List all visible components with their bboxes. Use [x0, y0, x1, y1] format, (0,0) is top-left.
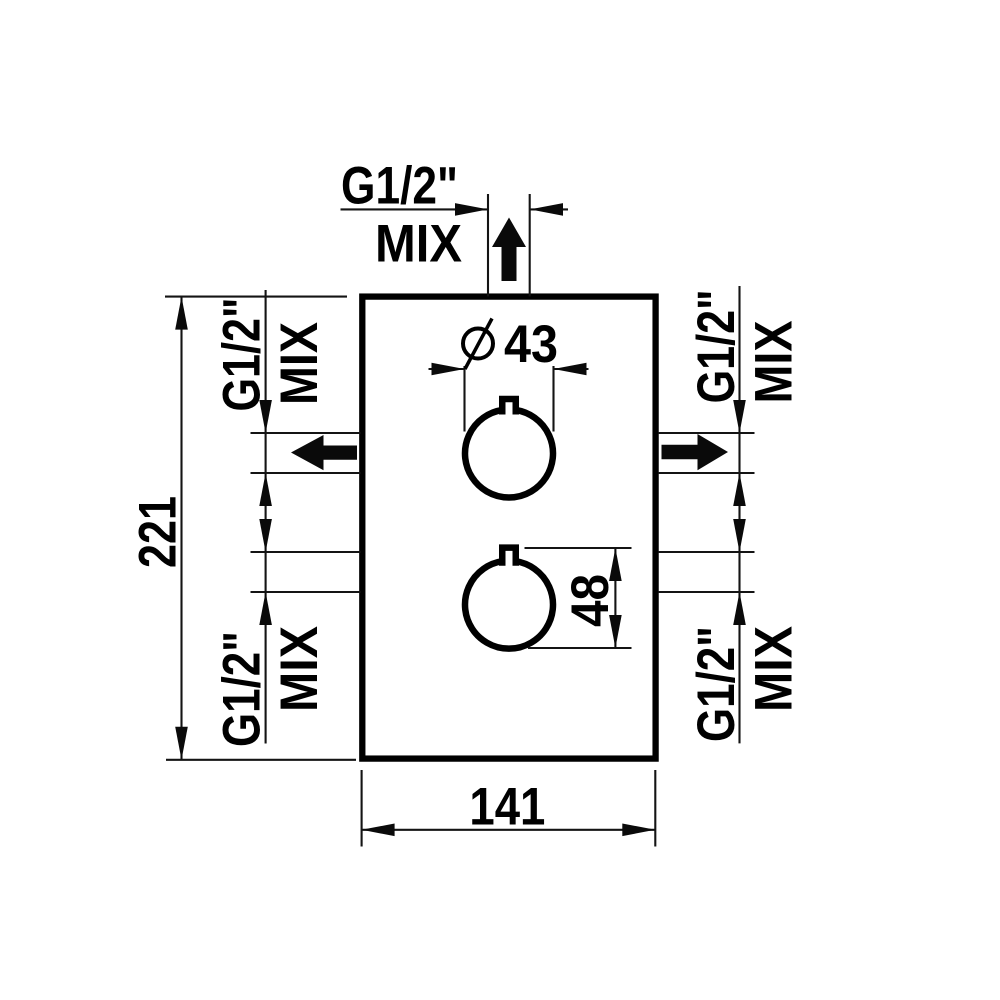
svg-text:221: 221	[129, 496, 188, 568]
svg-text:G1/2": G1/2"	[213, 631, 272, 747]
221 bottom arrowhead	[175, 727, 188, 760]
svg-text:G1/2": G1/2"	[687, 289, 746, 403]
141 dimension line	[362, 829, 656, 831]
upper knob circle (gap at top)	[465, 410, 553, 497]
left arrowhead down at 433	[259, 400, 272, 433]
svg-text:G1/2": G1/2"	[213, 298, 272, 412]
top inlet port extension line right	[529, 194, 531, 296]
svg-text:MIX: MIX	[270, 322, 329, 405]
right chained dimension line	[738, 286, 740, 743]
right arrowhead up at 473	[733, 473, 746, 506]
bottom extension line for 221 dimension	[166, 759, 356, 761]
upper knob index notch tab	[502, 399, 516, 415]
svg-text:G1/2": G1/2"	[341, 156, 458, 215]
diameter symbol slash	[465, 319, 492, 370]
svg-text:G1/2": G1/2"	[687, 626, 746, 742]
diameter symbol circle	[463, 329, 493, 359]
48 dimension bottom reference line	[528, 647, 632, 649]
48 arrowhead down	[609, 615, 622, 648]
left arrowhead up at 592	[259, 592, 272, 625]
right port stub line y433	[658, 432, 755, 434]
top G1/2 dimension leader line	[341, 208, 489, 210]
diameter 43 extension line left	[463, 366, 465, 432]
diameter 43 dimension line left segment	[429, 368, 465, 370]
diameter 43 right arrowhead pointing left	[554, 363, 587, 376]
top extension line for 221 dimension	[165, 296, 347, 298]
48 dimension top reference line	[525, 547, 632, 549]
top G1/2 right-pointing arrowhead	[455, 203, 488, 216]
48 dimension line	[614, 548, 616, 648]
left arrowhead down at 552	[259, 519, 272, 552]
diameter 43 dimension line right segment	[554, 368, 589, 370]
221 dimension line	[180, 297, 182, 760]
diameter 43 extension line right	[552, 366, 554, 432]
left port stub line y433	[251, 432, 361, 434]
svg-text:MIX: MIX	[745, 321, 804, 404]
141 extension line right	[654, 770, 656, 847]
svg-text:43: 43	[504, 315, 558, 374]
141 right arrowhead	[622, 824, 655, 837]
top mix flow arrow (thick)	[492, 218, 526, 282]
lower knob circle (gap at top)	[465, 561, 553, 648]
svg-text:MIX: MIX	[375, 215, 462, 274]
141 left arrowhead	[362, 824, 395, 837]
left chained dimension line	[265, 290, 267, 744]
right arrowhead down at 552	[733, 519, 746, 552]
right port stub line y552	[658, 551, 755, 553]
left arrowhead up at 473	[259, 473, 272, 506]
top G1/2 left-pointing arrowhead	[530, 203, 563, 216]
svg-text:141: 141	[469, 777, 545, 836]
left outlet flow arrow (thick)	[291, 435, 357, 470]
141 extension line left	[361, 770, 363, 847]
left port stub line y592	[251, 591, 361, 593]
top G1/2 tail line	[530, 208, 568, 210]
svg-text:MIX: MIX	[745, 626, 804, 712]
48 arrowhead up	[609, 548, 622, 581]
right port stub line y592	[658, 591, 755, 593]
right port stub line y473	[658, 472, 755, 474]
221 top arrowhead	[175, 297, 188, 330]
right outlet flow arrow (thick)	[662, 434, 729, 470]
diameter 43 left arrowhead pointing right	[432, 363, 465, 376]
right arrowhead up at 592	[733, 592, 746, 625]
right arrowhead down at 433	[733, 400, 746, 433]
left port stub line y473	[251, 472, 361, 474]
svg-text:48: 48	[561, 574, 620, 627]
top inlet port extension line left	[487, 194, 489, 296]
left port stub line y552	[251, 551, 361, 553]
svg-text:MIX: MIX	[270, 626, 329, 712]
valve body rectangle	[362, 297, 655, 759]
lower knob index notch tab	[502, 548, 516, 566]
